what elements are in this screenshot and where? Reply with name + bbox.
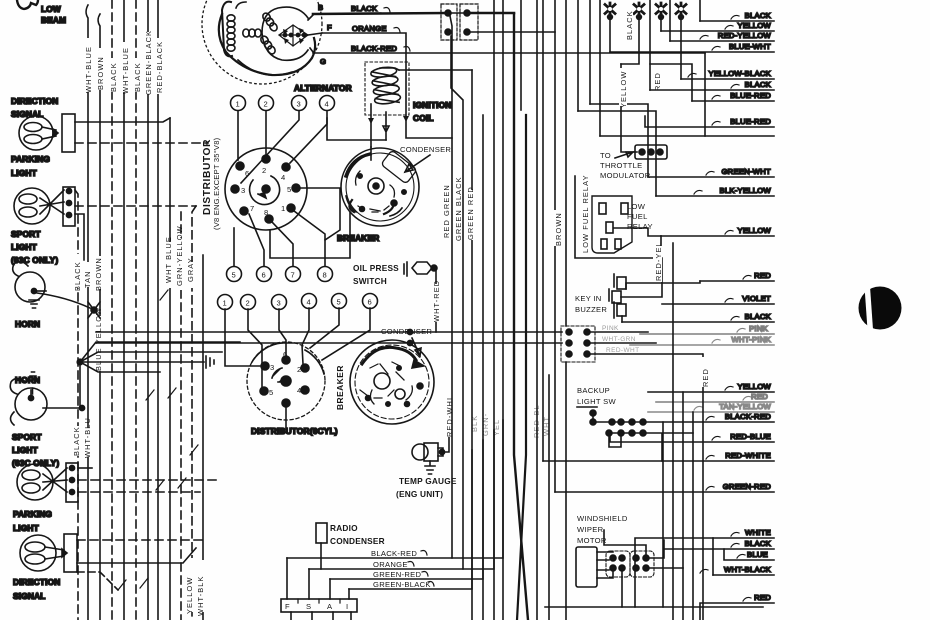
connector 6dot: [561, 325, 702, 362]
svg-text:RED-BLACK: RED-BLACK: [155, 41, 164, 93]
wire dir-sig lower diagonal: [77, 572, 118, 590]
pin P2: [634, 3, 644, 19]
svg-text:1: 1: [223, 299, 228, 308]
svg-text:WINDSHIELD: WINDSHIELD: [577, 514, 628, 523]
svg-text:BLK-YELLOW: BLK-YELLOW: [719, 186, 771, 195]
middle bundle verticals: [450, 0, 600, 620]
svg-text:GREEN RED: GREEN RED: [466, 186, 475, 240]
stub BLUE-RED y101: [692, 91, 774, 101]
svg-text:5: 5: [287, 185, 292, 194]
svg-text:YELLOW: YELLOW: [738, 21, 772, 30]
wire x463 lower: [462, 332, 464, 569]
pin P4: [676, 3, 686, 19]
svg-text:LOW: LOW: [627, 202, 646, 211]
svg-text:RED-BLUE: RED-BLUE: [730, 432, 771, 441]
stub BLACK y549: [664, 539, 774, 549]
svg-text:ORANGE: ORANGE: [352, 24, 387, 33]
svg-text:TEMP GAUGE: TEMP GAUGE: [399, 476, 457, 486]
temp gauge sensor: [412, 420, 449, 474]
stub YELLOW y31: [661, 21, 774, 31]
svg-text:WHT-BLUE: WHT-BLUE: [84, 46, 93, 93]
svg-text:GRN-: GRN-: [481, 413, 490, 436]
label RED-WHI rotated: [444, 397, 454, 437]
svg-text:DIRECTION: DIRECTION: [13, 577, 60, 587]
svg-text:GREEN-BLACK: GREEN-BLACK: [144, 30, 153, 95]
svg-text:BLACK: BLACK: [109, 62, 118, 92]
wire x483: [482, 115, 484, 620]
svg-text:BLACK-RED: BLACK-RED: [371, 549, 417, 558]
svg-text:YELLOW: YELLOW: [619, 71, 628, 108]
wire x78 dashed: [75, 190, 78, 620]
svg-text:WHT-BLK: WHT-BLK: [196, 575, 205, 616]
svg-text:TO: TO: [600, 151, 611, 160]
long wires y332 y343: [96, 329, 562, 345]
wire x192 dashed: [192, 206, 196, 620]
svg-text:5: 5: [269, 388, 274, 397]
key in buzzer: [575, 236, 663, 322]
sport lamp upper: [14, 188, 64, 224]
svg-text:GREEN-RED: GREEN-RED: [723, 482, 771, 491]
svg-text:BROWN: BROWN: [96, 56, 105, 90]
svg-text:CONDENSER: CONDENSER: [381, 327, 432, 336]
wire x516 thick crossing: [514, 14, 528, 620]
wire x566: [565, 0, 567, 620]
low fuel relay: [575, 174, 661, 258]
connector direction signal upper: [62, 114, 75, 152]
wire x463: [451, 36, 463, 332]
stub RED-BLUE y442: [610, 432, 774, 442]
wire x578 top: [577, 0, 579, 111]
stub BLACK y322: [622, 312, 774, 322]
label RED rotated right: [700, 357, 710, 387]
svg-text:GREEN-WHT: GREEN-WHT: [721, 167, 771, 176]
stub GREEN-RED y492: [555, 482, 774, 492]
svg-text:MOTOR: MOTOR: [577, 536, 607, 545]
left bundle mid labels: [71, 225, 195, 291]
stub PINK y334 faint: [640, 324, 774, 334]
left bundle bottom labels: [185, 558, 205, 616]
dist2 wiring: [225, 308, 370, 430]
svg-text:CONDENSER: CONDENSER: [330, 536, 385, 546]
wire dir-sig upper to bundle: [75, 118, 170, 122]
wire x503: [502, 0, 504, 620]
backup light switch: [577, 386, 703, 461]
diode bridge: [279, 25, 308, 46]
top right pins: [605, 3, 686, 19]
stub long y136: [600, 135, 774, 137]
svg-text:7: 7: [291, 271, 296, 280]
labels rotated right top: [619, 10, 662, 108]
svg-text:WHT-GRN: WHT-GRN: [602, 336, 636, 343]
pin circles row 1-4: [231, 96, 335, 111]
right top verticals: [578, 0, 705, 196]
ignition coil: [327, 62, 472, 147]
stub YELLOW y392: [648, 382, 774, 392]
wire x555: [554, 0, 556, 492]
stub RED y281: [626, 271, 774, 289]
svg-text:(63C ONLY): (63C ONLY): [12, 458, 59, 468]
svg-text:GRN-YELLOW: GRN-YELLOW: [175, 225, 184, 286]
svg-text:BLACK: BLACK: [72, 426, 81, 456]
svg-text:LIGHT: LIGHT: [13, 523, 39, 533]
wire x100: [98, 14, 100, 620]
left wire bundle verticals: [75, 0, 203, 620]
svg-text:3: 3: [241, 186, 246, 195]
label DISTRIBUTOR V8 rotated: [202, 137, 221, 230]
wire RED-YEL vertical: [660, 236, 662, 252]
svg-text:A: A: [327, 602, 333, 611]
svg-text:WHT-BLUE: WHT-BLUE: [121, 47, 130, 94]
svg-text:F: F: [285, 602, 290, 611]
wire horn ground y361: [77, 342, 240, 408]
stub BLACK-RED y422: [703, 412, 774, 422]
connector parking lower: [64, 534, 77, 572]
svg-text:ALTERNATOR: ALTERNATOR: [294, 83, 352, 93]
svg-text:1: 1: [236, 100, 241, 109]
svg-text:F: F: [327, 23, 332, 32]
stub WHT-PINK y345 faint: [630, 335, 774, 345]
svg-text:PINK: PINK: [602, 325, 619, 332]
svg-text:RED: RED: [751, 392, 768, 401]
connector box B dashed: [450, 4, 555, 40]
parking lamp lower: [20, 535, 67, 571]
svg-text:PARKING: PARKING: [11, 154, 50, 164]
connector box A dashed: [441, 4, 457, 40]
svg-text:BACKUP: BACKUP: [577, 386, 610, 395]
svg-text:RED: RED: [701, 368, 710, 387]
wire x448: [450, 16, 452, 558]
stub TAN-YELLOW y412 faint: [648, 402, 774, 412]
breaker 2: [350, 340, 434, 424]
svg-text:7: 7: [250, 204, 255, 213]
black ball marker: [859, 284, 902, 332]
terminal B wire BLACK: [313, 3, 514, 14]
svg-text:(V8 ENG.EXCEPT 35°V8): (V8 ENG.EXCEPT 35°V8): [212, 137, 221, 230]
svg-text:OIL PRESS: OIL PRESS: [353, 263, 399, 273]
svg-text:SPORT: SPORT: [11, 229, 41, 239]
stub YELLOW-BLACK y79: [681, 69, 774, 79]
right stub wires: [543, 11, 774, 620]
svg-text:GREEN-BLACK: GREEN-BLACK: [373, 580, 431, 589]
svg-text:6: 6: [368, 298, 373, 307]
svg-text:2: 2: [297, 365, 302, 374]
svg-text:SIGNAL: SIGNAL: [13, 591, 46, 601]
horn lower wire to bundle: [43, 407, 82, 409]
label BLUE YELLOW rotated: [93, 307, 103, 371]
left bundle top labels: [84, 30, 164, 95]
svg-text:ORANGE: ORANGE: [373, 560, 408, 569]
label WHT-RED rotated: [431, 280, 441, 322]
svg-text:1: 1: [281, 204, 286, 213]
pin circles row 5-8: [227, 267, 333, 282]
stub BLUE-RED y127: [645, 116, 774, 127]
svg-text:4: 4: [281, 173, 286, 182]
stub WHT-BLACK y575: [700, 565, 774, 575]
windshield wiper motor: [576, 514, 683, 607]
distributor V8: [225, 148, 307, 230]
svg-text:3: 3: [277, 299, 282, 308]
svg-text:RELAY: RELAY: [627, 222, 653, 231]
wire x494: [493, 0, 495, 620]
horn lower: [10, 372, 47, 425]
horn upper: [13, 261, 46, 308]
svg-text:(63C ONLY): (63C ONLY): [11, 255, 58, 265]
label RED: [653, 65, 661, 91]
wire x148: [147, 0, 149, 620]
svg-text:B: B: [318, 3, 323, 12]
svg-text:TAN: TAN: [83, 270, 92, 288]
wire x203: [202, 255, 204, 620]
sport connector upper: [63, 187, 75, 226]
direction signal lamp upper: [19, 116, 58, 150]
stub BLUE-WHT y52: [610, 42, 774, 52]
stub RED-YELLOW y41: [670, 31, 774, 41]
svg-text:RED: RED: [754, 593, 771, 602]
wire sport upper stub: [75, 214, 84, 260]
left bundle lower labels: [72, 417, 92, 458]
wire x88: [86, 5, 88, 620]
wire x469: [471, 70, 473, 620]
svg-text:LIGHT: LIGHT: [11, 242, 37, 252]
svg-text:LIGHT: LIGHT: [11, 168, 37, 178]
alternator body: [202, 0, 322, 84]
svg-text:WHT-RED: WHT-RED: [432, 280, 441, 322]
right mid bundle verticals: [663, 243, 713, 620]
svg-text:YEL: YEL: [492, 419, 501, 436]
svg-text:TAN-YELLOW: TAN-YELLOW: [719, 402, 771, 411]
svg-text:YELLOW: YELLOW: [185, 577, 194, 614]
svg-text:DIRECTION: DIRECTION: [11, 96, 58, 106]
wire parking lower dashed: [77, 539, 207, 541]
svg-text:RED-BL: RED-BL: [532, 404, 541, 438]
svg-text:LOW: LOW: [41, 4, 61, 14]
svg-text:THROTTLE: THROTTLE: [600, 161, 642, 170]
svg-text:YELLOW-BLACK: YELLOW-BLACK: [708, 69, 771, 78]
svg-text:CONDENSER: CONDENSER: [400, 145, 451, 154]
svg-text:RED-WHT: RED-WHT: [606, 347, 640, 354]
radio condenser: [316, 523, 327, 569]
labels rotated middle bundle: [441, 176, 563, 438]
FSAI box: [281, 599, 357, 620]
svg-text:BREAKER: BREAKER: [335, 365, 345, 410]
svg-text:RED-YEL: RED-YEL: [654, 241, 663, 281]
svg-text:PARKING: PARKING: [13, 509, 52, 519]
svg-text:BLUE-RED: BLUE-RED: [730, 117, 771, 126]
svg-text:5: 5: [337, 298, 342, 307]
svg-text:BLACK: BLACK: [745, 80, 771, 89]
svg-text:LOW FUEL RELAY: LOW FUEL RELAY: [581, 174, 590, 253]
svg-text:4: 4: [297, 386, 302, 395]
svg-text:MODULATOR: MODULATOR: [600, 171, 651, 180]
stub RED y603: [700, 593, 774, 620]
wire x551: [548, 375, 550, 620]
wire x521 thick crossing: [520, 0, 522, 110]
oil press switch: [353, 262, 437, 332]
dist1 wiring weave: [234, 111, 350, 266]
svg-text:BLUE-WHT: BLUE-WHT: [729, 42, 771, 51]
svg-text:WHITE: WHITE: [745, 528, 771, 537]
wire x537: [536, 0, 538, 620]
svg-text:RED GREEN: RED GREEN: [442, 184, 451, 238]
wire parking lower solid: [77, 548, 196, 563]
svg-text:6: 6: [262, 271, 267, 280]
svg-text:BLACK-RED: BLACK-RED: [351, 44, 397, 53]
svg-text:(ENG UNIT): (ENG UNIT): [396, 489, 443, 499]
stub BLACK y21: [700, 11, 774, 21]
svg-text:3: 3: [297, 100, 302, 109]
svg-text:BLACK: BLACK: [73, 261, 82, 291]
stub BLUE y560: [724, 549, 774, 560]
terminal F wire ORANGE: [322, 23, 452, 138]
svg-text:COIL: COIL: [413, 113, 434, 123]
svg-text:G: G: [320, 57, 326, 66]
svg-text:4: 4: [307, 298, 312, 307]
svg-text:LIGHT SW: LIGHT SW: [577, 397, 616, 406]
wire sport lower dashes: [78, 467, 92, 469]
wire x181 dashed: [180, 212, 182, 620]
distributor 6cyl: [247, 342, 325, 420]
svg-text:SPORT: SPORT: [12, 432, 42, 442]
svg-text:LIGHT: LIGHT: [12, 445, 38, 455]
svg-text:SWITCH: SWITCH: [353, 276, 387, 286]
svg-text:2: 2: [246, 299, 251, 308]
wire x543: [542, 0, 544, 461]
terminal G wire BLACK-RED: [313, 44, 705, 66]
stub YELLOW y236: [661, 226, 774, 236]
svg-text:3: 3: [270, 363, 275, 372]
svg-text:BLK: BLK: [470, 415, 479, 432]
bottom wires to FSAI: [287, 420, 503, 599]
stub RED y402 faint: [656, 392, 774, 402]
wire horn upper junction: [37, 293, 100, 318]
svg-text:WHT-BLACK: WHT-BLACK: [724, 565, 771, 574]
wire sport upper dashed: [75, 205, 196, 207]
wire x124: [123, 0, 125, 620]
svg-text:KEY IN: KEY IN: [575, 294, 602, 303]
svg-text:IGNITION: IGNITION: [413, 100, 451, 110]
label CONDENSER 2 with arrow: [381, 327, 432, 356]
svg-text:FUEL: FUEL: [627, 212, 648, 221]
svg-text:BLACK: BLACK: [745, 312, 771, 321]
sport lamp lower: [17, 464, 67, 500]
svg-text:BLUE-RED: BLUE-RED: [730, 91, 771, 100]
stub GREEN-WHT y177: [648, 167, 774, 177]
stub BLACK y90: [650, 80, 774, 90]
svg-text:BLACK: BLACK: [351, 4, 377, 13]
wire x170: [169, 118, 171, 620]
stub BLK-YELLOW y196: [656, 186, 774, 196]
svg-text:BLACK: BLACK: [745, 539, 771, 548]
svg-text:BEAM: BEAM: [41, 15, 66, 25]
svg-text:BROWN: BROWN: [554, 212, 563, 246]
crossing hop ticks: [118, 290, 198, 590]
pin P3: [656, 3, 666, 19]
svg-text:RED: RED: [653, 72, 662, 91]
svg-text:I: I: [346, 602, 348, 611]
svg-text:HORN: HORN: [15, 319, 40, 329]
svg-text:2: 2: [262, 166, 267, 175]
long bottom horizontal: [545, 606, 763, 608]
pin P1: [605, 3, 615, 19]
svg-text:YELLOW: YELLOW: [738, 382, 772, 391]
svg-text:RADIO: RADIO: [330, 523, 358, 533]
svg-text:BLACK: BLACK: [625, 10, 634, 40]
wire dashed from dir-sig: [75, 142, 208, 144]
wire x158: [157, 0, 159, 620]
svg-text:RED: RED: [754, 271, 771, 280]
svg-text:4: 4: [325, 100, 330, 109]
svg-text:RED-WHITE: RED-WHITE: [725, 451, 771, 460]
svg-text:VIOLET: VIOLET: [742, 294, 771, 303]
svg-text:BLACK: BLACK: [745, 11, 771, 20]
svg-text:5: 5: [232, 271, 237, 280]
svg-text:WHT-BLU: WHT-BLU: [83, 417, 92, 458]
wire x600 top: [599, 0, 601, 136]
svg-text:BREAKER: BREAKER: [337, 233, 379, 243]
label CONDENSER with arrow: [400, 145, 451, 172]
svg-text:PINK: PINK: [749, 324, 768, 333]
svg-text:WHT BLUE: WHT BLUE: [164, 236, 173, 283]
svg-text:WIPER: WIPER: [577, 525, 604, 534]
svg-text:YELLOW: YELLOW: [738, 226, 772, 235]
svg-text:8: 8: [323, 271, 328, 280]
svg-text:BROWN: BROWN: [94, 257, 103, 291]
svg-text:BLACK-RED: BLACK-RED: [725, 412, 771, 421]
svg-text:BLUE: BLUE: [747, 550, 768, 559]
stub WHITE y538: [635, 528, 774, 607]
svg-text:GRAY: GRAY: [186, 257, 195, 282]
headlight low beam: [17, 0, 38, 9]
svg-text:2: 2: [264, 100, 269, 109]
stub VIOLET y304: [662, 294, 774, 304]
throttle modulator: [600, 145, 667, 180]
svg-text:BLACK: BLACK: [133, 62, 142, 92]
pin circles row2 1-6: [218, 294, 378, 310]
stub RED-WHITE y461: [543, 451, 774, 461]
svg-text:GREEN-RED: GREEN-RED: [373, 570, 421, 579]
svg-text:S: S: [306, 602, 311, 611]
svg-text:8: 8: [264, 208, 269, 217]
sport connector lower: [66, 463, 78, 502]
svg-text:WHT: WHT: [542, 416, 551, 436]
wire x112 dashed: [111, 0, 113, 620]
svg-text:RED-YELLOW: RED-YELLOW: [718, 31, 772, 40]
svg-text:GREEN BLACK: GREEN BLACK: [454, 176, 463, 241]
breaker 1: [341, 147, 419, 226]
svg-text:WHT-PINK: WHT-PINK: [731, 335, 771, 344]
label BLACK: [625, 13, 633, 39]
svg-text:BUZZER: BUZZER: [575, 305, 607, 314]
svg-text:DISTRIBUTOR(6CYL): DISTRIBUTOR(6CYL): [251, 426, 338, 436]
faint labels mid low: [470, 404, 551, 438]
wire x136 dashed: [135, 0, 137, 620]
wire x590 top: [589, 0, 591, 104]
